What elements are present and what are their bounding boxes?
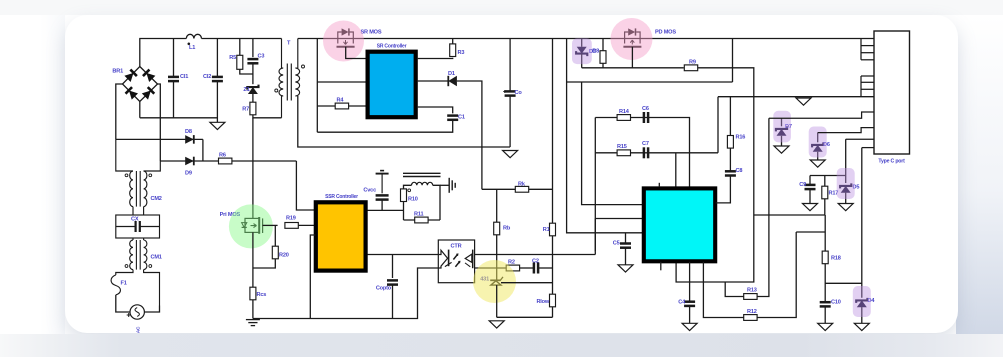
svg-text:C6: C6	[642, 106, 649, 112]
wire R18 node to D4	[825, 282, 862, 284]
resistor R11	[414, 212, 428, 223]
highlight PD MOS	[611, 18, 653, 60]
resistor R2	[506, 260, 519, 271]
wire CI1 to DC- rail	[173, 81, 175, 118]
svg-text:SR Controller: SR Controller	[377, 44, 407, 50]
common-mode choke CM2	[116, 139, 161, 215]
zener diode D4	[856, 298, 875, 307]
svg-text:R12: R12	[747, 309, 757, 315]
ground output return	[503, 151, 518, 158]
wire R1 divider	[552, 39, 554, 224]
svg-text:CI1: CI1	[180, 74, 188, 80]
diode D8	[185, 129, 194, 144]
wire PD MOS gate lead	[631, 47, 633, 68]
resistor R16	[727, 135, 745, 149]
wire aux left	[404, 185, 412, 188]
wire R20 to source	[253, 259, 275, 268]
X-capacitor CX	[116, 215, 160, 238]
svg-text:C8: C8	[736, 168, 743, 174]
wire C4 to gnd	[689, 306, 691, 323]
capacitor C2	[532, 259, 539, 274]
highlight D3	[572, 38, 592, 64]
svg-text:Rb: Rb	[503, 226, 511, 232]
wire VBUS sense A	[567, 39, 644, 233]
capacitor C4	[678, 300, 695, 306]
svg-text:D1: D1	[448, 71, 455, 77]
wire D6 to gnd	[817, 152, 819, 160]
wire D3 branch	[581, 39, 583, 47]
resistor R13	[744, 288, 757, 300]
capacitor Copto	[376, 280, 398, 291]
capacitor C7	[642, 141, 649, 158]
ground D5 gnd	[838, 204, 853, 211]
transistor PD MOS	[623, 28, 641, 46]
bridge rectifier BR1	[123, 67, 158, 102]
svg-text:PD MOS: PD MOS	[655, 30, 676, 36]
wire SR aux branch	[316, 39, 318, 133]
wire secondary top rail	[298, 38, 861, 40]
wire Rb branch	[496, 189, 498, 222]
svg-text:R4: R4	[337, 98, 345, 104]
wire R12 riser top	[796, 231, 825, 233]
wire startup to SSR	[296, 161, 315, 210]
wire gnd to filter	[717, 97, 719, 153]
wire D6 branch	[817, 133, 819, 143]
svg-text:Z1: Z1	[243, 87, 249, 93]
capacitor C9	[799, 182, 815, 189]
wire D5 to gnd	[845, 193, 847, 204]
ground D7 gnd	[774, 146, 789, 153]
zener diode D6	[812, 142, 830, 152]
resistor Rcs	[250, 287, 266, 300]
ground D4 gnd	[854, 323, 869, 330]
zener diode D7	[776, 124, 792, 136]
capacitor C3	[247, 54, 264, 64]
wire sense net	[810, 175, 846, 177]
diode D9	[185, 157, 194, 177]
wire 431 anode	[496, 285, 498, 317]
wire C9 branch	[809, 176, 811, 185]
wire R2 to C2	[520, 267, 534, 269]
transistor Pri MOS	[242, 217, 263, 234]
wire C2 to R1 node	[538, 267, 552, 269]
wire C5 branch	[625, 233, 627, 244]
capacitor CI1	[168, 74, 188, 81]
svg-text:R7: R7	[242, 107, 249, 113]
wire clamp node	[252, 63, 254, 84]
fuse F1	[111, 275, 120, 295]
wire R8 branch	[602, 39, 604, 51]
wire CTR net corner	[594, 252, 596, 255]
svg-text:R16: R16	[736, 135, 746, 141]
wire VBUS bus	[860, 39, 862, 60]
resistor R9	[684, 60, 697, 71]
wire gnd net	[718, 96, 874, 98]
pin GND2	[861, 81, 874, 83]
capacitor Co	[505, 90, 523, 96]
wire R10 bottom	[403, 202, 405, 220]
resistor R3	[450, 44, 465, 57]
connector Type C port	[874, 31, 910, 154]
wire gate bus down	[732, 39, 734, 83]
wire aux gnd stub	[440, 184, 449, 186]
wire SR pin left2	[317, 81, 365, 83]
polarity mark Co	[503, 91, 506, 93]
ground C4 gnd	[682, 323, 697, 330]
svg-text:R20: R20	[279, 253, 289, 259]
capacitor C10	[820, 300, 841, 307]
highlight Pri MOS	[229, 204, 273, 248]
resistor R1	[543, 223, 556, 236]
zener diode D5	[840, 183, 859, 192]
wire CTR net up	[594, 219, 596, 252]
IC PD Controller	[644, 188, 715, 261]
transistor SR MOS	[337, 28, 355, 46]
wire R13 to CC	[757, 118, 769, 296]
svg-text:C4: C4	[678, 300, 686, 306]
resistor Rlow	[536, 294, 555, 307]
wire R19 to SSR	[299, 224, 316, 226]
highlight D5	[837, 168, 855, 199]
wire R3 to rail	[452, 39, 454, 44]
highlight D6	[809, 127, 827, 158]
wire F1 to AC	[116, 295, 130, 312]
wire Rb bottom	[496, 235, 498, 255]
pin DP	[846, 138, 874, 140]
wire Pri MOS source	[252, 232, 254, 287]
resistor R7	[242, 102, 256, 115]
svg-text:AC: AC	[136, 326, 142, 333]
wire filter2 net	[594, 118, 596, 252]
wire Cvcc bottom	[381, 200, 383, 211]
pin VBUS4	[861, 59, 874, 61]
pin GND3	[861, 88, 874, 90]
wire C5 to gnd	[625, 248, 627, 265]
wire R3 net	[418, 57, 453, 60]
svg-text:Type C port: Type C port	[878, 159, 905, 165]
svg-text:CX: CX	[131, 217, 139, 223]
wire CI2 to ground	[216, 81, 218, 122]
wire C3 branch	[252, 39, 254, 58]
wire DC- bottom rail	[140, 117, 218, 119]
wire BR1 right to right rail	[158, 84, 161, 161]
wire PD gate net	[582, 67, 684, 69]
ground secondary gnd	[796, 98, 811, 105]
wire SSR pin left3	[310, 235, 315, 319]
wire D4 to gnd	[861, 307, 863, 323]
wire BR1 top to rail	[139, 39, 141, 67]
pin DM	[862, 147, 874, 149]
wire 431 ref	[501, 282, 553, 284]
svg-text:Copto: Copto	[376, 286, 392, 292]
svg-text:R5: R5	[229, 55, 236, 61]
wire filter2 horiz	[595, 152, 718, 154]
resistor R20	[272, 246, 288, 259]
svg-text:Co: Co	[515, 90, 523, 96]
wire Rk net	[482, 188, 553, 190]
highlight D4	[853, 286, 871, 317]
svg-text:C7: C7	[642, 141, 649, 147]
wire CI1 branch	[173, 39, 175, 77]
wire R18 bottom	[824, 264, 826, 302]
svg-text:C5: C5	[613, 241, 620, 247]
capacitor C8	[725, 168, 742, 176]
resistor R10	[401, 189, 418, 203]
capacitor CI2	[203, 74, 223, 81]
pin GND1	[861, 75, 874, 77]
wire box bottom stub	[660, 262, 662, 271]
svg-text:D8: D8	[185, 129, 192, 135]
wire 431 cathode node	[496, 255, 498, 281]
svg-text:R13: R13	[747, 288, 757, 294]
wire C8 to box	[716, 176, 731, 203]
ground C5 gnd	[618, 265, 633, 272]
pin CC2	[818, 128, 874, 133]
wire Co branch	[509, 39, 511, 92]
wire AC to right rail	[144, 306, 159, 313]
pin VBUS1	[861, 38, 874, 40]
capacitor C1	[447, 115, 465, 121]
ground C9 gnd	[803, 204, 818, 211]
ground feedback	[489, 321, 504, 328]
svg-text:R2: R2	[508, 260, 515, 266]
wire CTR emitter net	[475, 267, 506, 269]
wire R11 net	[404, 219, 441, 221]
wire box pin left2	[595, 218, 644, 220]
wire filter1 net	[595, 118, 689, 187]
AC source	[127, 305, 145, 319]
resistor Rk	[515, 182, 528, 193]
wire AC top rail (primary) 2	[202, 38, 282, 40]
wire SSR fb to CTR	[368, 254, 439, 256]
wire D9 net	[160, 160, 296, 162]
inductor aux winding	[403, 173, 441, 191]
svg-text:CTR: CTR	[451, 244, 462, 250]
svg-text:C9: C9	[799, 182, 806, 188]
wire D7 to gnd	[781, 136, 783, 146]
svg-text:R8: R8	[592, 49, 599, 55]
wire R20 branch	[274, 225, 276, 246]
wire R16 branch	[729, 97, 731, 136]
wire fb gnd	[497, 316, 553, 318]
svg-text:R10: R10	[408, 197, 418, 203]
wire D8 net	[116, 138, 203, 140]
wire Rcs to gnd rail	[252, 300, 254, 319]
highlight 431	[473, 260, 516, 303]
wire R5 bottom jog	[240, 69, 253, 74]
wire R4 net	[317, 105, 365, 107]
wire C1 net	[418, 107, 453, 113]
svg-text:Rk: Rk	[518, 182, 526, 188]
wire SSR vcc net	[368, 209, 404, 211]
inductor L1	[186, 34, 201, 38]
wire D7 branch	[781, 118, 783, 126]
wire R1 bottom	[552, 236, 554, 294]
wire R12 net	[703, 262, 743, 318]
wire C1 bottom	[317, 120, 452, 132]
wire Co bottom	[509, 96, 511, 147]
ground D6 gnd	[810, 160, 825, 167]
wire box top stub	[658, 183, 660, 187]
svg-text:R9: R9	[689, 60, 696, 66]
svg-text:R18: R18	[831, 256, 841, 262]
svg-text:SR MOS: SR MOS	[361, 30, 382, 36]
IC SSR Controller	[316, 202, 366, 270]
svg-text:R15: R15	[617, 144, 627, 150]
wire R13 net	[725, 282, 744, 297]
wire R5 branch	[239, 39, 241, 56]
wire snubber node down	[481, 147, 483, 189]
wire R16 to C8	[729, 148, 731, 171]
transformer T	[275, 39, 305, 118]
highlight D7	[773, 111, 791, 143]
power bar Cvcc supply	[376, 171, 389, 194]
resistor Rb	[494, 222, 511, 235]
wire R8 bottom	[602, 64, 604, 68]
IC SR Controller	[368, 52, 416, 118]
wire CI2 branch	[216, 39, 218, 77]
svg-text:Rcs: Rcs	[257, 292, 267, 298]
svg-text:C1: C1	[458, 115, 465, 121]
wire SR MOS gate to controller	[346, 47, 366, 59]
resistor R6	[219, 153, 232, 164]
wire Copto bottom	[392, 285, 394, 319]
wire Pri MOS gate	[263, 224, 278, 226]
wire aux right	[433, 185, 440, 220]
wire D1 net	[418, 80, 449, 82]
wire R7 to primary bottom	[253, 115, 282, 118]
capacitor Cvcc	[363, 188, 388, 200]
wire D3 bottom	[581, 54, 583, 68]
ground primary	[246, 320, 260, 326]
wire D1 to snubber node	[457, 81, 482, 147]
svg-text:R6: R6	[219, 153, 226, 159]
wire R17 branch	[824, 176, 826, 187]
svg-text:C3: C3	[258, 54, 265, 60]
resistor R4	[335, 98, 348, 109]
svg-text:C2: C2	[532, 259, 539, 265]
svg-text:Cvcc: Cvcc	[363, 188, 376, 194]
ground aux (sideways)	[449, 178, 455, 193]
resistor R12	[744, 309, 757, 320]
ground primary DC-	[210, 122, 225, 129]
pin CC1	[769, 112, 874, 118]
wire CTR collector net	[475, 254, 596, 256]
zener diode D3	[576, 47, 596, 56]
wire C10 to gnd	[824, 307, 826, 324]
wire Z1 to R7	[252, 94, 254, 102]
wire D4 vertical	[861, 148, 863, 298]
wire D8 to D9 net	[202, 139, 204, 161]
svg-text:R11: R11	[414, 212, 423, 218]
highlight SR MOS	[323, 21, 364, 62]
svg-text:F1: F1	[121, 281, 127, 287]
svg-text:R19: R19	[286, 216, 296, 222]
wire R17 bottom	[824, 199, 826, 215]
svg-text:CI2: CI2	[203, 74, 211, 80]
wire gate bus jog	[567, 81, 733, 83]
diode D1	[448, 71, 457, 86]
optocoupler CTR	[438, 240, 474, 283]
wire BR1 bottom to DC- rail	[139, 102, 141, 118]
capacitor C5	[613, 241, 631, 248]
svg-text:CM1: CM1	[151, 255, 162, 261]
svg-text:R1: R1	[543, 227, 550, 233]
pin VBUS3	[861, 52, 874, 54]
wire primary bottom to Pri MOS drain	[252, 118, 254, 219]
svg-text:C10: C10	[831, 300, 841, 306]
svg-text:R14: R14	[619, 109, 630, 115]
wire R9 to fb	[676, 68, 754, 282]
resistor R8	[592, 49, 606, 64]
resistor R14	[617, 109, 630, 121]
svg-text:L1: L1	[189, 45, 195, 51]
resistor R17	[822, 186, 838, 199]
wire C9 to gnd	[809, 189, 811, 203]
svg-text:T: T	[287, 41, 291, 47]
svg-text:CM2: CM2	[151, 196, 162, 202]
wire R18 top	[824, 215, 826, 251]
wire R12 to riser	[757, 232, 796, 318]
wire BR1 left to left rail	[116, 84, 123, 139]
svg-text:BR1: BR1	[112, 69, 123, 75]
wire D5 jog	[845, 139, 847, 183]
wire secondary return	[298, 96, 510, 147]
wire C4 branch	[689, 262, 691, 302]
wire filter2 to box	[675, 153, 677, 187]
wire box pin left1	[582, 82, 644, 205]
svg-text:SSR Controller: SSR Controller	[325, 194, 358, 200]
resistor R18	[822, 251, 841, 264]
resistor R5	[229, 55, 243, 69]
wire AC top rail (primary)	[139, 38, 186, 40]
wire R17 R18 link	[754, 214, 825, 216]
common-mode choke CM1	[116, 238, 160, 306]
wire GND bus	[860, 76, 862, 97]
svg-text:Rlow: Rlow	[536, 299, 549, 305]
ground C10 gnd	[818, 323, 833, 330]
shunt regulator 431	[490, 277, 503, 285]
wire Rlow bottom	[552, 307, 554, 317]
svg-text:R3: R3	[458, 50, 465, 56]
wire primary gnd rail	[253, 268, 438, 319]
wire Copto branch	[392, 255, 394, 279]
pin VBUS2	[861, 45, 874, 47]
svg-text:D9: D9	[185, 171, 192, 177]
zener diode Z1	[243, 85, 258, 94]
resistor R19	[285, 216, 298, 229]
resistor R15	[617, 144, 631, 156]
capacitor C6	[642, 106, 649, 123]
